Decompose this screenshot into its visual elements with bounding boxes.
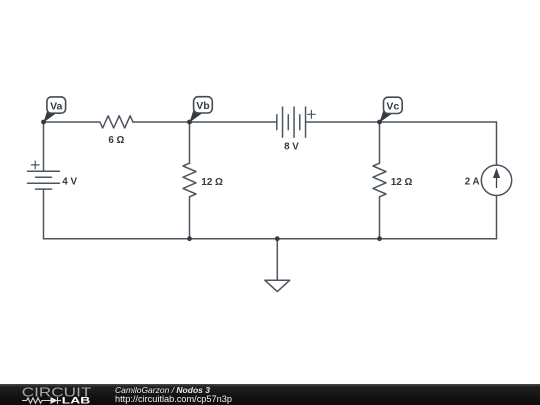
battery V1 4V — [28, 171, 60, 189]
node tag Va — [44, 97, 66, 123]
svg-text:12 Ω: 12 Ω — [201, 177, 223, 188]
svg-text:2 A: 2 A — [465, 176, 480, 187]
wire Vc down to R3 — [379, 122, 381, 163]
wire Vb down to R2 — [189, 122, 191, 163]
wire R2 to bottom rail — [189, 197, 191, 239]
svg-text:8 V: 8 V — [284, 142, 299, 153]
node dot Vb — [187, 120, 192, 125]
wire bottom rail — [44, 238, 497, 240]
wire V1 to bottom-left corner — [43, 189, 45, 239]
resistor R3 12 ohm — [373, 163, 386, 197]
wire R1 to V2 — [133, 121, 277, 123]
wire top rail Va to R1 — [44, 121, 100, 123]
battery V2 8V — [277, 107, 306, 137]
wire I1 to bottom-right corner — [496, 196, 498, 239]
svg-text:Vb: Vb — [196, 100, 209, 112]
junction dot bottom under Vb — [187, 236, 192, 241]
wire left rail Va down to V1 — [43, 122, 45, 171]
junction dot bottom under Vc — [377, 236, 382, 241]
node tag Vb — [190, 97, 213, 123]
svg-text:Vc: Vc — [386, 101, 399, 113]
node dot Va — [41, 120, 46, 125]
current source I1 2A — [481, 165, 511, 195]
url text — [115, 395, 232, 404]
ground stem — [276, 239, 278, 281]
junction dot bottom ground — [275, 236, 280, 241]
svg-text:6 Ω: 6 Ω — [108, 135, 124, 146]
svg-text:LAB: LAB — [62, 395, 91, 405]
wire Vc to top-right corner — [380, 121, 497, 123]
ground triangle — [265, 280, 290, 291]
svg-text:4 V: 4 V — [62, 177, 77, 188]
node dot Vc — [377, 120, 382, 125]
circuitlab logo — [0, 384, 110, 405]
wire right rail corner down to I1 — [496, 122, 498, 165]
credit text — [115, 386, 210, 395]
footer bar — [0, 384, 540, 405]
resistor R1 6 ohm — [100, 116, 133, 128]
svg-text:12 Ω: 12 Ω — [391, 177, 413, 188]
svg-text:Va: Va — [50, 100, 62, 112]
wire V2 to Vc — [306, 121, 380, 123]
wire R3 to bottom rail — [379, 197, 381, 239]
arrow of I1 — [494, 170, 500, 189]
plus sign of V1 — [31, 161, 39, 169]
plus sign of V2 — [308, 111, 316, 119]
resistor R2 12 ohm — [183, 163, 196, 197]
node tag Vc — [380, 97, 403, 122]
